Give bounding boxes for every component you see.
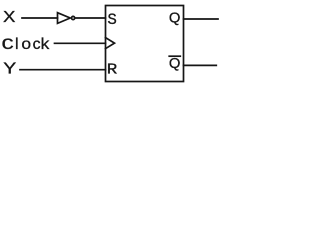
inverter U1 [58,13,75,24]
wire Y to R input [20,69,106,71]
svg-text:o: o [21,36,31,53]
svg-text:S: S [107,11,116,29]
svg-text:R: R [107,60,118,78]
svg-text:X: X [3,9,15,26]
pin label Q-bar [169,56,181,72]
svg-text:Q: Q [169,11,181,27]
svg-text:k: k [40,36,51,54]
wire X to inverter [22,17,58,19]
svg-text:Y: Y [3,60,16,77]
clock input wedge [106,38,115,49]
svg-text:Q: Q [169,56,181,72]
wire Clock to clock input [55,42,106,44]
wire Q output [184,18,219,20]
svg-text:C: C [1,36,14,54]
node Clock [1,36,50,54]
wire inverter to S input [75,17,105,19]
flip-flop U1 body [106,6,184,82]
svg-text:l: l [15,36,19,53]
wire Q-bar output [184,64,217,66]
